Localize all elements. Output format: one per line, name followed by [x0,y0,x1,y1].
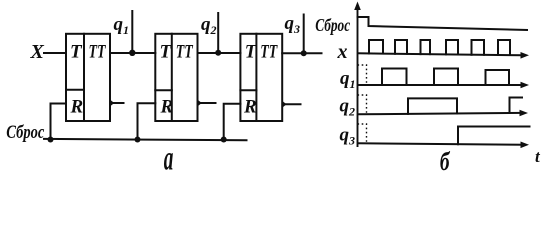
U2 inverse output arrow [198,100,202,107]
svg-text:q3: q3 [340,125,356,148]
svg-text:TT: TT [176,42,194,63]
waveform q1 pulses [382,69,509,86]
node q3 junction [301,50,307,56]
svg-text:R: R [70,97,84,118]
waveform q2 pulses [408,98,522,114]
wire U1 inverse output stub [113,102,124,104]
flip-flop U3 left-column T/R divider [240,89,256,91]
wire reset bus [44,139,247,140]
svg-text:T: T [160,42,173,63]
svg-text:б: б [440,147,451,177]
svg-text:T: T [70,42,83,63]
svg-text:а: а [164,140,174,178]
waveform q1 axis arrowhead [521,82,530,89]
waveform q1 baseline [358,84,525,86]
U3 inverse output arrow [282,101,286,108]
wire q1 riser [131,11,133,53]
flip-flop U3 divider [255,34,257,121]
svg-text:q2: q2 [201,14,217,37]
waveform x baseline [358,53,525,55]
flip-flop U2 left-column T/R divider [155,89,172,91]
wire reset to U1.R [51,104,67,140]
waveform q2 initial dotted level [358,95,367,114]
svg-text:R: R [160,97,174,118]
wire U2 inverse output stub [201,102,216,104]
svg-text:q1: q1 [114,14,130,37]
flip-flop U2 (T-trigger) body [155,34,197,121]
U1 inverse output arrow [110,100,114,107]
wire U1 output to U2.T [110,52,155,54]
wire reset to U3.R [224,104,241,140]
waveform q3 baseline [358,143,525,145]
wire U2 output to U3.T [198,52,241,54]
svg-text:q3: q3 [285,13,301,36]
wire q3 riser [303,15,305,54]
svg-text:Сброс: Сброс [6,122,44,143]
svg-text:q2: q2 [340,96,356,119]
svg-text:t: t [535,147,541,166]
flip-flop U2 divider [171,34,173,121]
svg-text:Сброс: Сброс [315,15,350,35]
wire U3 inverse output stub [286,103,301,105]
svg-text:X: X [30,41,45,63]
waveform q3 axis arrowhead [521,142,530,149]
node q2 junction [215,50,221,56]
waveform q3 initial dotted level [358,124,367,144]
wire q2 riser [217,13,219,53]
svg-text:TT: TT [260,42,278,63]
waveform Sbros (reset pulse) [358,17,528,30]
timing axis arrowhead [354,2,361,11]
node reset-U2 junction [135,137,141,143]
svg-text:TT: TT [89,42,107,63]
flip-flop U1 left-column T/R divider [66,89,84,91]
node reset-U3 junction [221,137,227,143]
timing diagram axis [357,6,359,146]
svg-text:q1: q1 [340,68,356,91]
waveform x clock pulses [369,40,510,55]
node q1 junction [129,50,135,56]
waveform q3 step [458,127,530,145]
waveform q2 axis arrowhead [520,110,529,117]
waveform q1 initial dotted level [358,65,367,85]
wire U3 output [282,52,321,54]
svg-text:T: T [245,42,258,63]
svg-text:x: x [337,41,348,63]
wire X input to U1.T [44,52,66,54]
flip-flop U3 (T-trigger) body [240,34,282,121]
wire reset to U2.R [138,103,156,139]
node reset-U1 junction [48,137,54,143]
svg-text:R: R [243,97,257,118]
waveform x axis arrowhead [521,52,530,59]
flip-flop U1 (T-trigger) body [66,34,110,121]
waveform q2 baseline [358,113,524,114]
flip-flop U1 divider [83,34,85,121]
